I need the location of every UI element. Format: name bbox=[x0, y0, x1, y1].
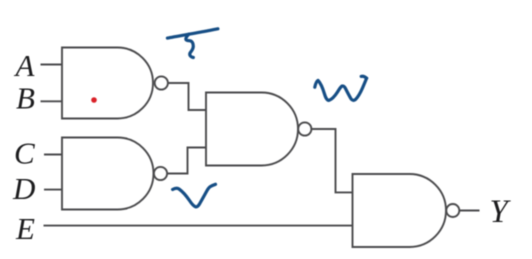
nand gate U2 (inputs C,D) bbox=[62, 138, 154, 210]
wire input D bbox=[44, 189, 62, 191]
svg-text:Y: Y bbox=[490, 194, 512, 230]
svg-text:C: C bbox=[14, 135, 35, 170]
wire input E bbox=[44, 225, 353, 227]
blue pen V check mark bbox=[173, 184, 216, 207]
wire input B bbox=[41, 100, 63, 102]
wire U3 output to U4 upper input bbox=[311, 129, 352, 192]
bubble U3 bbox=[298, 122, 311, 135]
nand gate U3 (middle) bbox=[206, 93, 298, 166]
svg-text:A: A bbox=[14, 48, 36, 83]
nand gate U4 (output Y) bbox=[353, 174, 447, 247]
svg-text:D: D bbox=[12, 171, 35, 206]
blue pen W end hook bbox=[361, 76, 366, 78]
wire U1 output to U3 upper input bbox=[168, 83, 206, 110]
bubble U2 bbox=[154, 167, 167, 180]
bubble U4 bbox=[446, 204, 459, 217]
wire input C bbox=[44, 154, 62, 156]
bubble U1 bbox=[155, 76, 168, 89]
nand gate U1 (inputs A,B) bbox=[62, 48, 153, 119]
wire input A bbox=[41, 64, 63, 66]
svg-text:B: B bbox=[16, 81, 35, 116]
wire output Y bbox=[459, 210, 479, 212]
blue pen T-mark vertical squiggle bbox=[186, 34, 193, 57]
red dot annotation bbox=[91, 97, 97, 103]
blue pen W squiggle bbox=[315, 78, 367, 100]
blue pen T-mark horizontal stroke bbox=[167, 29, 218, 38]
wire U2 output to U3 lower input bbox=[167, 148, 206, 174]
svg-text:E: E bbox=[15, 211, 35, 246]
